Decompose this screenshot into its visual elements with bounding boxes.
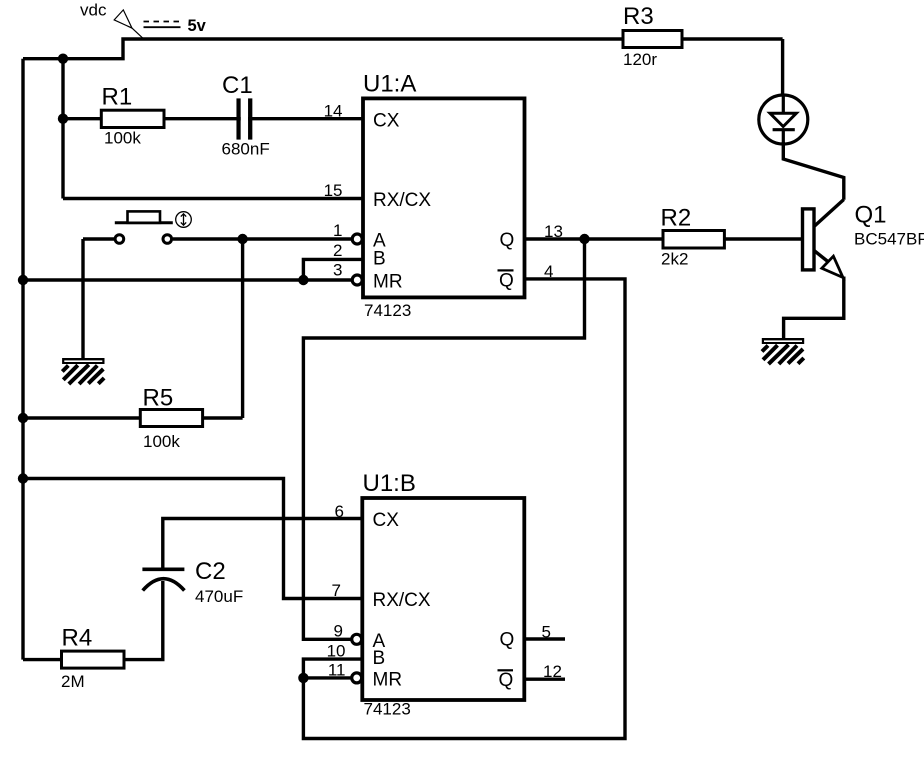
wire MR pin3 run <box>23 278 351 281</box>
node junction Q13 <box>579 234 589 244</box>
resistor R1 <box>101 84 164 148</box>
svg-text:13: 13 <box>544 222 563 241</box>
wire emitter to ground <box>784 277 844 340</box>
wire LED to collector <box>783 142 844 200</box>
svg-text:14: 14 <box>324 102 343 121</box>
svg-text:Q: Q <box>499 670 514 691</box>
wire switch to ground <box>81 239 84 359</box>
power flag vdc <box>80 1 207 39</box>
wire Qbar pin4 feedback loop <box>303 279 625 739</box>
chip U1:A <box>363 71 525 321</box>
capacitor C2 polarized <box>142 558 243 606</box>
svg-text:C2: C2 <box>195 558 226 585</box>
wire R3 to LED <box>781 39 784 96</box>
node junction B/MR <box>298 275 308 285</box>
svg-text:9: 9 <box>334 622 343 641</box>
svg-text:MR: MR <box>373 271 403 292</box>
push button switch <box>83 211 351 243</box>
svg-text:15: 15 <box>324 181 343 200</box>
svg-text:2M: 2M <box>61 672 85 691</box>
chip U1:B <box>362 470 524 719</box>
ground left <box>62 358 104 384</box>
svg-text:120r: 120r <box>623 50 657 69</box>
wire pin14 run R1 C1 <box>63 117 363 120</box>
svg-text:3: 3 <box>333 261 342 280</box>
wire left rail <box>21 59 24 660</box>
svg-text:74123: 74123 <box>364 301 411 320</box>
LED D1 <box>759 95 808 144</box>
wire pin5 Q stub <box>524 637 565 640</box>
svg-text:U1:A: U1:A <box>363 71 416 98</box>
node junction MR11 <box>298 673 308 683</box>
svg-text:Q: Q <box>500 629 515 650</box>
node junction left rail R5 <box>18 413 28 423</box>
resistor R2 <box>661 205 725 269</box>
svg-text:Q: Q <box>500 230 515 251</box>
svg-text:R5: R5 <box>143 385 174 412</box>
transistor Q1 <box>803 200 924 278</box>
wire pin12 Qbar stub <box>524 678 565 681</box>
wire switch node down to R5 <box>241 239 244 418</box>
resistor R5 <box>140 385 202 452</box>
wire vdc branch to R1/RXCX <box>61 59 64 199</box>
svg-text:RX/CX: RX/CX <box>373 190 431 211</box>
wire Q output pin13 to R2 to base <box>525 237 803 240</box>
svg-text:CX: CX <box>373 110 400 131</box>
svg-text:B: B <box>373 648 386 669</box>
svg-text:470uF: 470uF <box>195 587 243 606</box>
svg-text:MR: MR <box>373 669 403 690</box>
resistor R4 <box>61 625 124 692</box>
wire Q feedback down to U1:B pin A <box>303 239 584 639</box>
bubble pin A U1:B <box>352 634 362 644</box>
bubble pin MR U1:A <box>352 275 362 285</box>
svg-text:2k2: 2k2 <box>661 250 688 269</box>
svg-text:10: 10 <box>327 642 346 661</box>
svg-text:U1:B: U1:B <box>363 470 416 497</box>
wire top rail 5v <box>23 39 783 59</box>
svg-text:7: 7 <box>332 581 341 600</box>
svg-text:Q: Q <box>499 270 514 291</box>
ground right <box>762 338 804 364</box>
svg-text:Q1: Q1 <box>855 202 887 229</box>
resistor R3 <box>623 3 682 69</box>
bubble pin A U1:A <box>352 234 362 244</box>
wire B pin2 link <box>303 259 363 280</box>
svg-text:100k: 100k <box>104 129 141 148</box>
node junction top <box>58 54 68 64</box>
svg-text:74123: 74123 <box>364 700 411 719</box>
wire MR pin11 stub <box>303 676 351 679</box>
wire C2 to R4 run <box>23 581 163 660</box>
wire pin15 RX/CX <box>63 197 363 200</box>
svg-text:R1: R1 <box>102 84 133 111</box>
svg-text:5v: 5v <box>188 17 207 35</box>
svg-text:100k: 100k <box>143 432 180 451</box>
node junction left rail 478 <box>18 473 28 483</box>
bubble pin MR U1:B <box>352 673 362 683</box>
svg-text:C1: C1 <box>222 72 253 99</box>
svg-text:680nF: 680nF <box>222 140 270 159</box>
svg-text:R4: R4 <box>62 625 93 652</box>
node junction switch-A <box>237 234 247 244</box>
svg-text:B: B <box>373 249 386 270</box>
svg-text:R3: R3 <box>623 3 654 30</box>
svg-text:CX: CX <box>373 510 400 531</box>
svg-text:R2: R2 <box>661 205 692 232</box>
wire pin6 CX to C2 <box>163 519 363 570</box>
node junction R1 <box>58 114 68 124</box>
svg-text:11: 11 <box>328 661 346 680</box>
wire left rail to pin7 RX/CX <box>23 479 363 599</box>
svg-text:6: 6 <box>335 502 344 521</box>
svg-text:BC547BP: BC547BP <box>854 230 924 249</box>
capacitor C1 <box>222 72 270 159</box>
svg-text:2: 2 <box>333 241 342 260</box>
svg-text:vdc: vdc <box>80 1 107 20</box>
svg-text:1: 1 <box>333 221 342 240</box>
node junction left rail MR <box>18 275 28 285</box>
svg-text:RX/CX: RX/CX <box>373 590 431 611</box>
wire R5 run <box>23 416 243 419</box>
